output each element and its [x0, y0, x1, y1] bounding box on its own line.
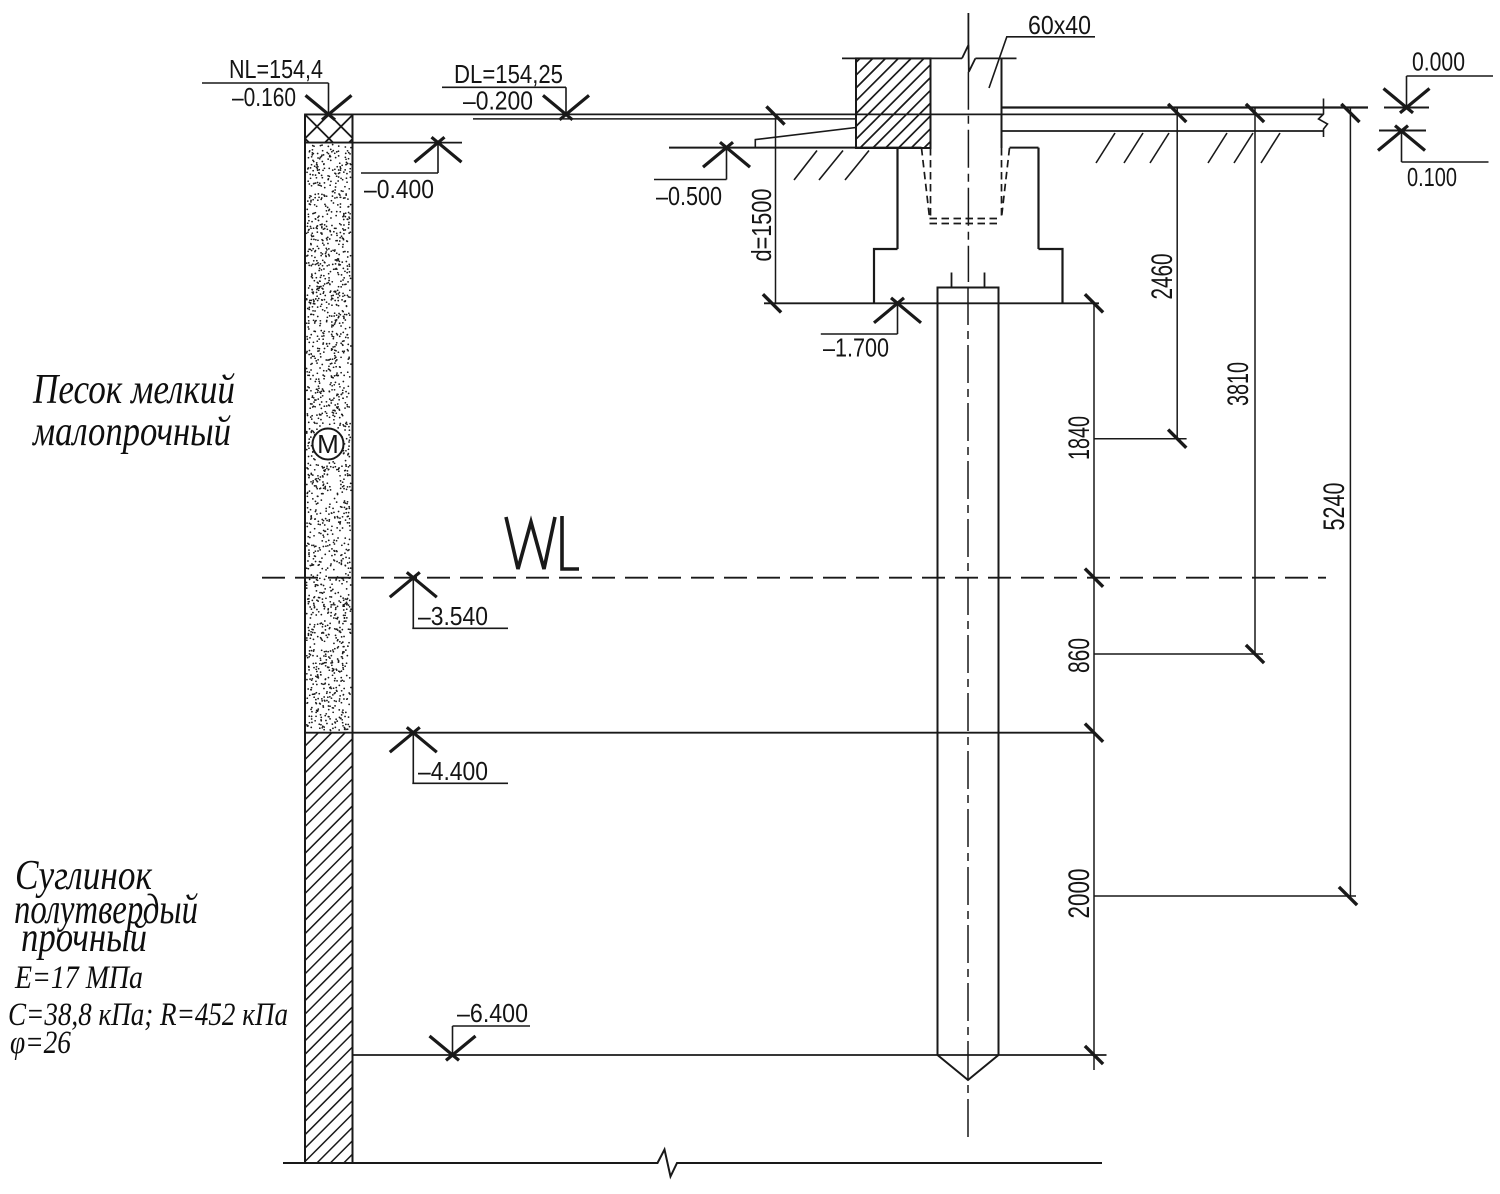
pile shaft	[938, 303, 999, 1055]
borehole soil column	[305, 114, 353, 1163]
water level WL dashed line	[262, 577, 1326, 579]
svg-text:1840: 1840	[1063, 416, 1096, 460]
borehole top crosshatch cap	[305, 114, 353, 142]
foundation pit floor line left	[669, 147, 922, 149]
elevation mark NL=154,4 / -0.160	[202, 83, 352, 120]
elevation mark 0.000	[1384, 76, 1494, 113]
svg-text:2460: 2460	[1146, 254, 1179, 300]
line break symbol right	[1319, 99, 1328, 138]
svg-text:60x40: 60x40	[1028, 10, 1091, 40]
label 60x40 with leader	[989, 37, 1095, 88]
elevation mark DL=154,25 / -0.200	[442, 87, 589, 120]
elevation mark -4.400	[390, 727, 508, 783]
dimension d=1500	[763, 106, 785, 312]
svg-text:5240: 5240	[1318, 483, 1351, 531]
foundation pit floor line right	[1010, 147, 1039, 149]
soil layer boundary line -4.400	[305, 732, 1094, 734]
sand stipple texture	[307, 145, 352, 731]
elevation mark -1.700	[821, 298, 921, 334]
svg-text:NL=154,4: NL=154,4	[229, 54, 323, 84]
elevation mark -0.400	[361, 137, 462, 173]
foundation base line	[764, 302, 1099, 304]
column centre axis dash-dot	[967, 72, 969, 282]
socket left wall dashed	[922, 148, 931, 218]
column 60x40 outline	[931, 58, 1002, 148]
svg-text:–3.540: –3.540	[418, 601, 488, 631]
svg-text:860: 860	[1063, 638, 1096, 673]
svg-text:0.100: 0.100	[1407, 162, 1457, 192]
pile head	[938, 288, 999, 304]
svg-text:–6.400: –6.400	[457, 998, 528, 1028]
svg-text:2000: 2000	[1063, 869, 1096, 919]
floor underside line 0.100	[1002, 130, 1324, 132]
svg-text:–0.160: –0.160	[232, 82, 296, 112]
svg-text:–0.500: –0.500	[656, 181, 722, 211]
svg-text:–4.400: –4.400	[418, 756, 488, 786]
bottom baseline with break	[283, 1150, 1102, 1177]
elevation mark -6.400	[430, 1026, 531, 1060]
elevation mark -0.500	[654, 142, 750, 179]
dimension 5240	[1094, 104, 1360, 905]
foundation step and slab	[874, 249, 1063, 303]
svg-text:Е=17 МПа: Е=17 МПа	[14, 960, 143, 996]
dimension 2460	[1094, 104, 1187, 448]
pile rebar stubs	[952, 273, 985, 288]
svg-text:–0.200: –0.200	[463, 86, 533, 116]
socket bottom double dashed	[930, 219, 1002, 224]
svg-text:малопрочный: малопрочный	[31, 409, 231, 455]
svg-text:–0.400: –0.400	[364, 174, 434, 204]
elevation mark -3.540	[390, 572, 508, 628]
svg-text:3810: 3810	[1222, 362, 1255, 406]
svg-text:0.000: 0.000	[1412, 47, 1465, 77]
svg-text:φ=26: φ=26	[10, 1025, 71, 1061]
slab cut line top	[842, 57, 1017, 59]
level line -6.400	[353, 1054, 1107, 1056]
WL text	[506, 516, 579, 569]
DL second line y119	[473, 118, 856, 120]
socket right wall dashed	[1002, 148, 1010, 218]
pile tip	[938, 1055, 999, 1080]
blind area slope	[755, 128, 856, 148]
main vertical dimension chain	[1085, 294, 1103, 1070]
circled M soil symbol	[313, 429, 344, 460]
svg-text:M: M	[317, 429, 339, 459]
ground line NL/DL y114	[305, 113, 1324, 115]
svg-text:Песок мелкий: Песок мелкий	[32, 367, 235, 413]
svg-text:–1.700: –1.700	[823, 333, 889, 363]
ground hatch strokes right group2	[1208, 133, 1280, 163]
dimension 3810	[1094, 104, 1264, 663]
column axis break zigzag	[962, 13, 975, 72]
pile centre axis	[967, 287, 969, 1143]
elevation mark 0.100	[1378, 126, 1489, 162]
level line -0.400	[305, 142, 462, 144]
svg-text:DL=154,25: DL=154,25	[454, 59, 563, 89]
svg-text:прочный: прочный	[21, 915, 147, 961]
floor line 0.000	[1002, 106, 1369, 108]
svg-text:d=1500: d=1500	[746, 189, 777, 262]
ground hatch strokes left group	[794, 151, 869, 181]
loam diagonal hatch	[305, 733, 353, 1163]
column pedestal hatched section	[856, 58, 931, 148]
ground hatch strokes right group1	[1096, 133, 1169, 163]
foundation pedestal outline	[898, 148, 1039, 249]
